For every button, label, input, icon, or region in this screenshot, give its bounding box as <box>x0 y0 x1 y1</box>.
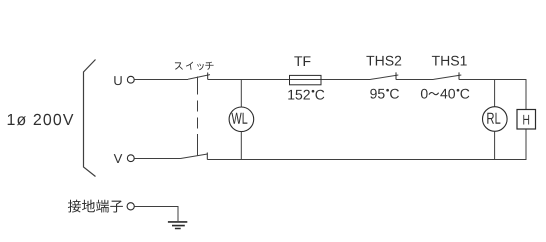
label RL <box>487 113 500 124</box>
wire: WL branch bottom <box>240 132 242 160</box>
wire: U terminal to switch pole 1 <box>134 79 188 81</box>
thermostat THS2 blade <box>371 75 399 79</box>
heater H box <box>517 110 536 130</box>
terminal V open circle <box>127 155 134 162</box>
label: 1φ 200V supply voltage <box>8 114 74 126</box>
label 152°C (fuse rating) <box>288 90 310 100</box>
switch mechanical linkage (dashed) <box>197 77 199 156</box>
label 95°C (THS2 setting) <box>370 89 384 99</box>
switch S pole 2 fixed contact tick <box>206 153 208 160</box>
switch S pole 2 blade (moving contact) <box>181 154 208 159</box>
earth terminal open circle <box>127 203 134 210</box>
wire: bottom line from switch to bottom-right corner <box>207 129 526 160</box>
label THS2 <box>366 56 401 66</box>
terminal label U <box>114 76 121 85</box>
supply bracket (1-phase source) <box>84 60 96 177</box>
label 0~40°C (THS1 setting) <box>421 89 428 99</box>
terminal label V <box>114 154 123 163</box>
wire: WL branch top <box>240 80 242 108</box>
wire: RL branch top <box>494 80 496 107</box>
thermal fuse TF body (rectangle) <box>290 75 322 84</box>
thermostat THS1 fixed contact tick <box>458 72 460 79</box>
label THS1 <box>432 56 467 66</box>
wire: THS1 to top-right corner <box>459 80 526 110</box>
lamp RL circle <box>483 107 508 132</box>
lamp WL circle <box>229 107 254 132</box>
label: switch スイッチ <box>175 62 214 71</box>
label TF <box>294 56 310 66</box>
terminal U open circle <box>127 76 134 83</box>
label WL <box>231 113 247 124</box>
wire: RL branch bottom <box>494 131 496 159</box>
thermostat THS2 fixed contact tick <box>395 72 397 79</box>
wire: THS2 to THS1 <box>396 79 434 81</box>
wire: switch to thermal fuse TF and on to THS2 (top line) <box>208 79 371 81</box>
wire: V terminal to switch pole 2 <box>134 158 180 160</box>
switch S pole 1 blade (moving contact) <box>188 75 210 80</box>
wire: earth terminal to ground symbol <box>134 207 178 222</box>
label H <box>523 115 529 125</box>
thermostat THS1 blade <box>434 75 462 79</box>
label: earth terminal 接地端子 <box>68 200 123 213</box>
switch S pole 1 fixed contact tick <box>207 73 209 80</box>
ground symbol <box>168 222 187 229</box>
